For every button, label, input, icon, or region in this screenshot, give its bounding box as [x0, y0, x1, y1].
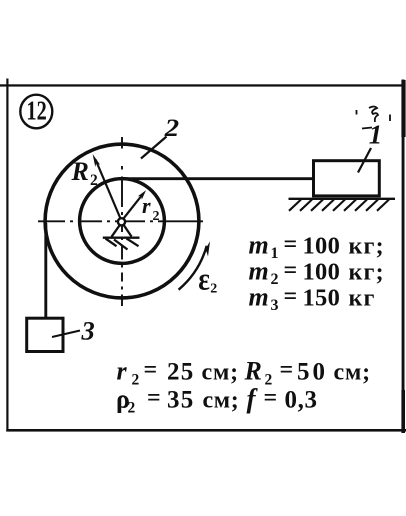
svg-text:1: 1 — [271, 245, 279, 262]
svg-text:=: = — [284, 258, 298, 284]
svg-text:см;: см; — [202, 360, 239, 386]
svg-text:3: 3 — [81, 315, 95, 345]
svg-text:=: = — [264, 385, 278, 411]
svg-text:кг;: кг; — [349, 234, 385, 260]
svg-text:кг;: кг; — [349, 260, 385, 286]
svg-text:2: 2 — [271, 271, 279, 288]
svg-text:2: 2 — [164, 114, 179, 142]
svg-text:ε: ε — [198, 263, 210, 297]
svg-text:r: r — [142, 193, 151, 218]
svg-text:=: = — [280, 357, 294, 383]
svg-text:25: 25 — [167, 359, 194, 386]
svg-text:0,3: 0,3 — [285, 387, 318, 414]
svg-text:R: R — [244, 357, 262, 386]
svg-text:m: m — [249, 231, 269, 260]
svg-text:2: 2 — [153, 209, 160, 224]
svg-text:2: 2 — [210, 282, 217, 297]
svg-text:2: 2 — [132, 372, 140, 389]
svg-text:35: 35 — [167, 387, 194, 414]
svg-text:m: m — [249, 257, 269, 286]
svg-text:2: 2 — [128, 400, 136, 417]
svg-text:r: r — [117, 357, 128, 386]
svg-text:2: 2 — [90, 172, 98, 189]
svg-text:=: = — [147, 385, 161, 411]
svg-text:=: = — [144, 357, 158, 383]
svg-text:3: 3 — [271, 297, 279, 314]
svg-text:12: 12 — [26, 96, 46, 127]
svg-text:=: = — [284, 284, 298, 310]
svg-text:100: 100 — [303, 259, 341, 286]
svg-text:m: m — [249, 283, 269, 312]
svg-text:f: f — [247, 384, 259, 414]
svg-text:150: 150 — [303, 285, 341, 312]
svg-text:кг: кг — [349, 286, 376, 312]
svg-text:100: 100 — [303, 233, 341, 260]
svg-text:см;: см; — [334, 360, 371, 386]
svg-text:50: 50 — [297, 359, 328, 386]
svg-text:1: 1 — [369, 120, 383, 150]
svg-text:R: R — [71, 157, 89, 186]
svg-text:=: = — [284, 232, 298, 258]
svg-text:см;: см; — [203, 388, 240, 414]
